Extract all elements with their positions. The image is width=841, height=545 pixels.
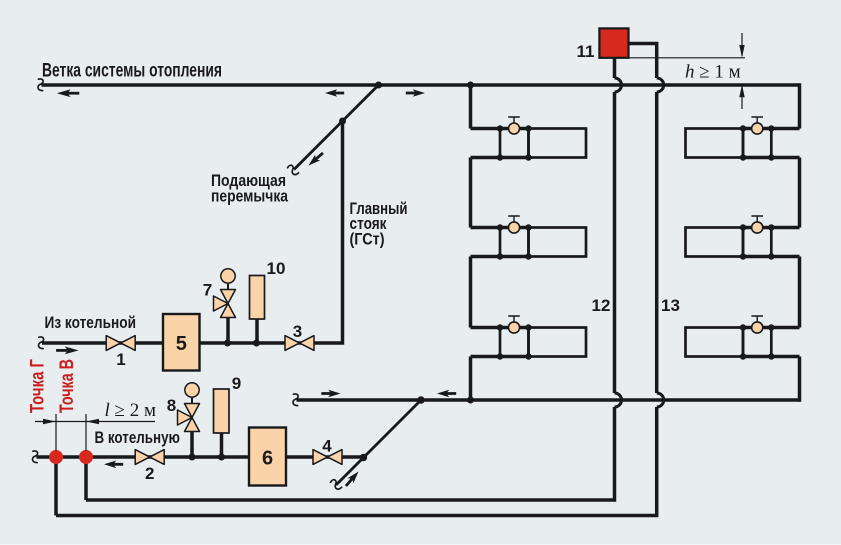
svg-text:1: 1 bbox=[116, 350, 125, 369]
svg-text:12: 12 bbox=[592, 296, 611, 315]
svg-text:6: 6 bbox=[262, 448, 273, 470]
svg-text:5: 5 bbox=[176, 333, 187, 355]
svg-text:Точка В: Точка В bbox=[57, 359, 78, 413]
svg-text:11: 11 bbox=[577, 42, 595, 61]
svg-text:9: 9 bbox=[232, 374, 241, 393]
svg-text:Из котельной: Из котельной bbox=[45, 313, 137, 332]
svg-text:(ГСт): (ГСт) bbox=[350, 230, 385, 249]
svg-text:13: 13 bbox=[661, 296, 680, 315]
svg-text:перемычка: перемычка bbox=[211, 187, 288, 206]
svg-text:Точка Г: Точка Г bbox=[28, 359, 49, 413]
svg-text:7: 7 bbox=[203, 281, 212, 300]
svg-text:В котельную: В котельную bbox=[95, 428, 181, 447]
svg-text:4: 4 bbox=[322, 437, 332, 456]
svg-text:h ≥ 1 м: h ≥ 1 м bbox=[685, 62, 741, 83]
svg-text:l ≥ 2 м: l ≥ 2 м bbox=[105, 400, 156, 421]
svg-text:Ветка системы отопления: Ветка системы отопления bbox=[42, 61, 222, 82]
svg-text:10: 10 bbox=[267, 259, 286, 278]
svg-text:2: 2 bbox=[145, 464, 154, 483]
svg-text:3: 3 bbox=[293, 322, 302, 341]
svg-text:8: 8 bbox=[167, 396, 176, 415]
